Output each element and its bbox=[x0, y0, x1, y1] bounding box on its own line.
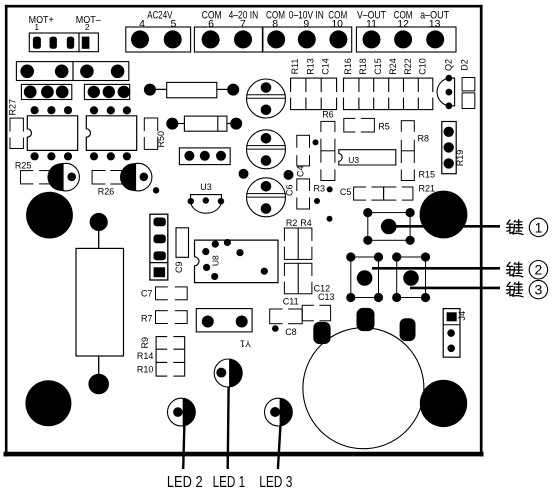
capacitor C4 bbox=[295, 135, 310, 177]
svg-text:C11: C11 bbox=[283, 297, 299, 307]
connector block row A left bbox=[16, 62, 73, 81]
LED 2 bbox=[168, 398, 196, 469]
svg-text:R22: R22 bbox=[403, 58, 413, 75]
resistor R8 R15 bbox=[400, 121, 435, 181]
svg-text:6: 6 bbox=[208, 18, 214, 30]
svg-text:R10: R10 bbox=[137, 365, 154, 375]
svg-text:C10: C10 bbox=[418, 58, 428, 75]
svg-text:5: 5 bbox=[170, 18, 176, 30]
pad rounded 3 bbox=[400, 318, 416, 341]
svg-text:R15: R15 bbox=[419, 169, 436, 179]
svg-text:U3: U3 bbox=[200, 182, 212, 192]
crystal Y1 bbox=[196, 309, 252, 349]
LED 1 bbox=[214, 359, 242, 469]
svg-text:C9: C9 bbox=[174, 262, 184, 274]
terminal block COM 6 / 4-20 IN 7 bbox=[194, 9, 262, 52]
U8 pin dots bbox=[202, 239, 268, 280]
label key 3 bbox=[507, 280, 548, 298]
via dot right of circle2 bbox=[284, 170, 294, 180]
connector block row B right bbox=[84, 84, 130, 99]
svg-text:LED 3: LED 3 bbox=[259, 474, 292, 491]
svg-text:R26: R26 bbox=[98, 187, 115, 197]
svg-text:2: 2 bbox=[535, 262, 543, 278]
mounting hole top-left bbox=[26, 192, 73, 239]
resistor R25 bbox=[15, 160, 53, 185]
svg-text:R18: R18 bbox=[358, 58, 368, 75]
resistor R49 with end pads bbox=[166, 116, 242, 131]
svg-text:R2: R2 bbox=[286, 218, 298, 228]
svg-text:R4: R4 bbox=[300, 218, 312, 228]
jumper resistor top with end pads bbox=[144, 82, 239, 97]
svg-text:1: 1 bbox=[535, 219, 543, 235]
svg-text:C4: C4 bbox=[295, 165, 305, 177]
capacitor C9 bbox=[174, 228, 189, 273]
wire to key 3 label bbox=[410, 287, 500, 290]
svg-text:U8: U8 bbox=[210, 255, 220, 266]
capacitor next to U2 bbox=[143, 118, 159, 149]
svg-text:U3: U3 bbox=[348, 155, 359, 165]
svg-text:AC24V: AC24V bbox=[147, 9, 173, 21]
pad rounded 1 bbox=[313, 322, 330, 344]
IC U2 pin dots top bbox=[90, 106, 131, 114]
board outline bbox=[4, 5, 484, 457]
resistors R2 R4 bbox=[283, 218, 313, 294]
svg-text:R21: R21 bbox=[419, 184, 436, 194]
IC U1 bbox=[27, 116, 77, 151]
potentiometer body bbox=[76, 248, 124, 356]
via dot left of circle2 bbox=[239, 169, 249, 179]
svg-text:3: 3 bbox=[535, 282, 543, 298]
svg-text:C13: C13 bbox=[318, 292, 335, 302]
IC U1 pin dots top bbox=[30, 106, 72, 114]
bridge rectifier circle 1 bbox=[247, 79, 286, 118]
svg-text:R16: R16 bbox=[343, 58, 353, 75]
label key 1 bbox=[507, 218, 548, 236]
trimmer pad top bbox=[90, 213, 108, 249]
svg-text:C5: C5 bbox=[340, 187, 352, 197]
push button S3 bbox=[392, 252, 430, 302]
mounting hole top-right bbox=[420, 191, 468, 239]
svg-text:Y1: Y1 bbox=[240, 339, 251, 349]
terminal block COM 8 / 0-10V IN 9 / COM 10 bbox=[263, 9, 352, 52]
svg-text:R14: R14 bbox=[137, 351, 154, 361]
mounting hole bottom-right bbox=[420, 380, 467, 427]
svg-text:R50: R50 bbox=[156, 131, 166, 148]
svg-text:10: 10 bbox=[331, 18, 343, 30]
terminal block AC24V pins 4-5 bbox=[126, 9, 191, 52]
svg-text:R9: R9 bbox=[140, 337, 150, 349]
svg-text:LED 1: LED 1 bbox=[213, 474, 246, 491]
connector 3-pin header bbox=[179, 148, 230, 165]
capacitor C13 bbox=[302, 292, 334, 322]
wire to key 2 label bbox=[372, 267, 500, 270]
via dot left of R6 bbox=[313, 139, 319, 145]
mounting hole bottom-left bbox=[25, 380, 71, 426]
svg-text:R19: R19 bbox=[455, 150, 465, 167]
connector 4-pin vertical bbox=[150, 214, 168, 280]
svg-text:8: 8 bbox=[272, 18, 278, 30]
svg-text:4: 4 bbox=[139, 18, 145, 30]
svg-text:R5: R5 bbox=[378, 122, 390, 132]
connector block row B left bbox=[21, 84, 71, 99]
svg-text:R8: R8 bbox=[418, 133, 430, 143]
svg-text:C8: C8 bbox=[285, 327, 297, 337]
resistor network R9 R14 R10 bbox=[137, 335, 185, 377]
capacitor C6 bbox=[284, 179, 310, 209]
svg-text:R24: R24 bbox=[388, 58, 398, 75]
svg-text:R3: R3 bbox=[314, 184, 326, 194]
svg-text:1: 1 bbox=[34, 22, 39, 32]
IC U2 pin dots bottom bbox=[90, 152, 131, 160]
svg-text:MOT+: MOT+ bbox=[29, 15, 54, 26]
capacitor C8 bbox=[272, 325, 297, 337]
svg-text:R6: R6 bbox=[322, 110, 334, 120]
pad rounded 2 bbox=[357, 308, 375, 331]
connector J4 bbox=[443, 309, 467, 358]
svg-text:R7: R7 bbox=[141, 314, 153, 324]
via dot below C6 bbox=[314, 198, 320, 204]
svg-text:Q2: Q2 bbox=[444, 59, 454, 71]
push button S1 bbox=[363, 208, 415, 245]
connector block row A right bbox=[73, 62, 129, 81]
IC U2 bbox=[86, 116, 136, 151]
label R50 bbox=[156, 131, 166, 148]
resistor R27 bbox=[8, 99, 25, 149]
svg-text:R27: R27 bbox=[8, 99, 18, 116]
capacitor C5 bbox=[340, 186, 413, 201]
wire to key 1 label bbox=[396, 225, 500, 228]
svg-text:C15: C15 bbox=[373, 58, 383, 75]
push button S2 bbox=[346, 252, 383, 302]
svg-text:D2: D2 bbox=[460, 59, 470, 71]
svg-text:11: 11 bbox=[366, 18, 377, 30]
resistor R5 bbox=[344, 117, 390, 133]
svg-text:C7: C7 bbox=[141, 289, 153, 299]
svg-text:R11: R11 bbox=[290, 59, 300, 75]
via dot below Q4 bbox=[153, 187, 159, 193]
resistor array R11 R13 C14 bbox=[289, 58, 338, 109]
LED 3 bbox=[265, 398, 293, 469]
resistor R7 bbox=[141, 310, 187, 325]
label MOT- pin 2 bbox=[76, 15, 101, 32]
label key 2 bbox=[507, 261, 548, 279]
IC U8 bbox=[195, 240, 279, 283]
transistor Q2 bbox=[437, 59, 455, 109]
svg-text:C14: C14 bbox=[321, 58, 331, 75]
resistor R6 bbox=[320, 110, 336, 181]
transistor Q4 bbox=[120, 163, 152, 191]
resistor R26 bbox=[92, 169, 124, 196]
svg-text:LED 2: LED 2 bbox=[167, 474, 203, 491]
IC U3 opto bbox=[339, 150, 396, 166]
transistor Q3 bbox=[47, 163, 79, 191]
terminal block V-OUT 11 / COM 12 / a-OUT 13 bbox=[356, 9, 456, 52]
resistor R19 bbox=[442, 122, 465, 174]
connector MOT terminal block bbox=[29, 33, 98, 52]
via dot right of R3 bbox=[327, 186, 333, 192]
svg-text:R25: R25 bbox=[15, 160, 32, 170]
svg-text:J4: J4 bbox=[457, 311, 467, 321]
capacitor C7 bbox=[141, 286, 187, 301]
label MOT+ pin 1 bbox=[29, 15, 54, 32]
IC U1 pin dots bottom bbox=[30, 152, 72, 160]
svg-text:2: 2 bbox=[85, 22, 90, 32]
bridge rectifier circle 2 bbox=[247, 130, 286, 169]
diode D2 bbox=[460, 59, 475, 108]
svg-text:R13: R13 bbox=[305, 58, 315, 75]
bridge rectifier circle 3 bbox=[247, 178, 286, 217]
capacitor C11 bbox=[270, 297, 303, 325]
svg-text:7: 7 bbox=[240, 18, 246, 30]
svg-text:13: 13 bbox=[429, 18, 441, 30]
svg-text:9: 9 bbox=[303, 18, 309, 30]
trimmer pad bottom bbox=[88, 356, 109, 394]
via dot right of R2 R4 bbox=[327, 216, 333, 222]
svg-text:C6: C6 bbox=[284, 185, 294, 197]
transistor U3 TO-92 bbox=[188, 182, 225, 213]
svg-text:12: 12 bbox=[397, 18, 409, 30]
resistor array R16 R18 C15 R24 R22 C10 bbox=[342, 58, 434, 109]
buzzer bbox=[303, 328, 424, 449]
